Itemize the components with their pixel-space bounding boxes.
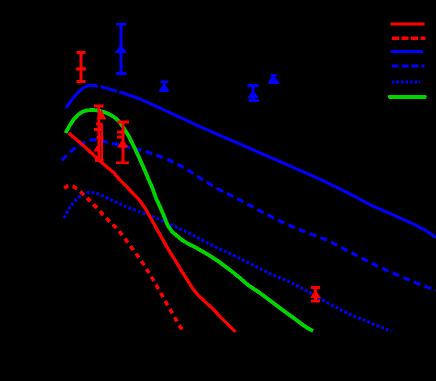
blue data point 1 (x=121): error bar + triangle: [116, 24, 127, 73]
legend entry 3: blue solid sample: [390, 50, 422, 53]
red data point 2 (x=99): stacked error bars + triangles: [94, 106, 105, 161]
curve: green solid: [66, 110, 314, 331]
curve: red dashed: [64, 185, 183, 331]
red data point 3 (x=123): error bar + triangle: [116, 122, 129, 163]
legend entry 2: red dashed sample: [392, 37, 425, 40]
blue data point 4 (x=273.5): small error bar + triangle: [268, 75, 279, 83]
legend entry 5: blue dotted sample: [392, 80, 420, 83]
legend entry 1: red solid sample: [390, 22, 424, 25]
curve: red solid: [69, 133, 236, 332]
red data point 4 (x=315.5): error bar + triangle: [311, 288, 320, 302]
gap notch on blue solid: [117, 86, 120, 93]
curve: blue dashed: [62, 140, 436, 291]
curve: blue dotted: [64, 192, 391, 331]
blue data point 3 (x=253): error bar + triangle: [248, 86, 259, 101]
blue data point 2 (x=164): small error bar + triangle: [159, 82, 169, 92]
legend entry 4: blue dashed sample: [392, 64, 424, 67]
curve: blue solid: [66, 85, 436, 237]
legend entry 6: green solid sample: [390, 95, 425, 99]
gap notch on blue solid: [98, 83, 101, 89]
red data point 1 (x=81): error bar: [76, 53, 86, 82]
